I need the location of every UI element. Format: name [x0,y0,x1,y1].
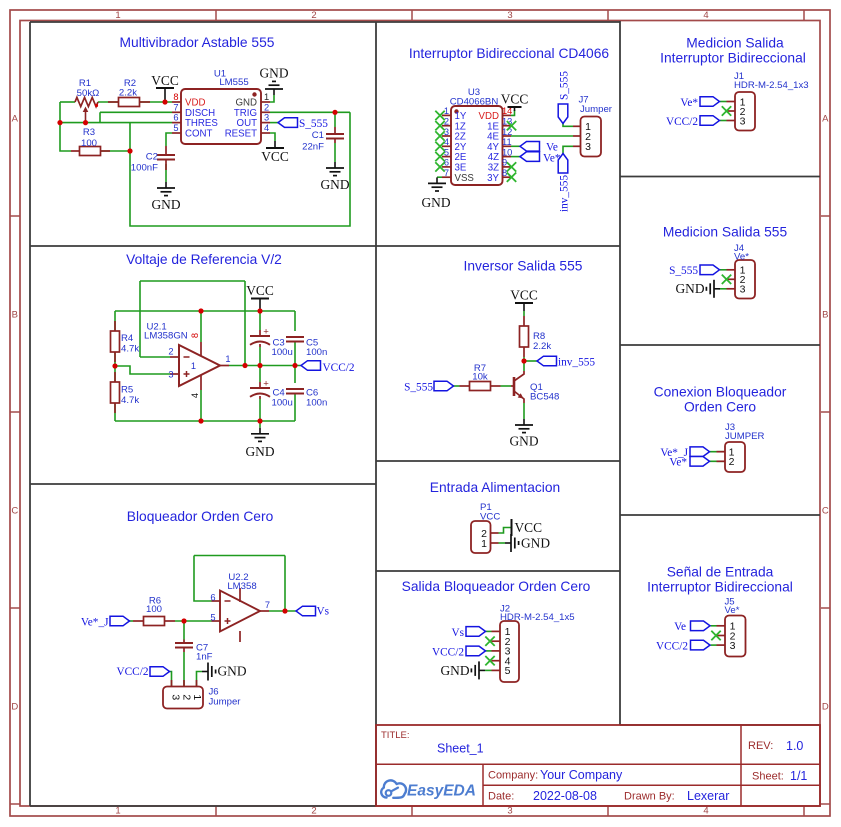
junction node R1-R2-VCC [162,99,167,104]
svg-text:3: 3 [740,115,746,127]
svg-text:1: 1 [115,806,120,817]
ground B2 [515,419,533,433]
svg-text:B: B [12,309,18,320]
svg-text:100: 100 [81,138,97,149]
svg-text:5: 5 [210,612,215,622]
svg-text:GND: GND [245,444,274,459]
svg-text:GND: GND [259,66,288,81]
transistor Q1 BC548 [513,377,516,396]
op-amp U2.2 LM358 [220,591,260,632]
svg-text:1: 1 [481,538,487,550]
wire S_555 to J4 pin1 [720,269,727,271]
net flag Ve* J3 [690,457,710,467]
wire pin4 to VCC [270,133,275,141]
svg-text:4: 4 [190,393,200,398]
capacitor C2 100nF [165,146,167,155]
ground section A2 [251,428,269,442]
svg-text:GND: GND [421,195,450,210]
svg-text:C1: C1 [312,130,324,141]
net flag Ve* [520,152,540,162]
no-connect X J5 pin2 [711,631,720,640]
connector J1 HDR-M-2.54_1x3 [735,92,755,131]
svg-text:Company:: Company: [488,770,538,782]
net flag VCC/2 to jumper [150,667,170,677]
svg-text:100u: 100u [272,397,293,408]
junction node R1 wiper [83,120,88,125]
junction node TRIG-C1 [332,110,337,115]
ground below C1 [326,162,344,176]
svg-text:100: 100 [146,604,162,615]
wire pin2 input [140,356,170,358]
svg-text:D: D [822,701,829,712]
resistor R3 100 [71,150,80,152]
wire Ve to J5 pin1 [711,625,717,627]
wire P1 pin2 to VCC [499,528,511,534]
no-connect X J2 pin2 [485,637,494,646]
EasyEDA logo [381,780,476,799]
capacitor C1 22nF [334,127,336,134]
wire R8 to node [523,357,525,361]
svg-text:VCC: VCC [515,520,543,535]
svg-text:1nF: 1nF [196,652,213,663]
svg-text:1: 1 [191,694,203,700]
wire left vertical branch [60,102,71,151]
resistor R7 10k [460,385,470,387]
svg-text:C: C [822,505,829,516]
no-connect X J4 pin2 [722,275,731,284]
svg-text:CONT: CONT [185,129,213,140]
svg-text:Date:: Date: [488,791,514,803]
svg-text:S_555: S_555 [299,118,328,130]
capacitor C6 100n [286,388,304,390]
svg-text:Señal de Entrada: Señal de Entrada [667,565,774,580]
wire THRES rail [60,122,172,124]
svg-text:1: 1 [191,361,196,371]
svg-text:RESET: RESET [225,129,257,140]
junction node left rail [57,120,62,125]
wire node to bottom loop [130,112,350,226]
wire output A3 [269,610,296,612]
svg-text:3: 3 [264,113,269,123]
svg-text:A: A [12,113,19,124]
wire feedback loop top [140,280,245,282]
svg-text:Ve*: Ve* [680,97,698,109]
svg-text:2.2k: 2.2k [119,88,137,99]
wire Ve*_J to J3 pin1 [710,451,727,453]
svg-text:1: 1 [225,354,230,364]
svg-text:2022-08-08: 2022-08-08 [533,789,597,803]
svg-text:VCC: VCC [501,92,529,107]
svg-text:B: B [822,309,828,320]
svg-text:Vs: Vs [317,606,330,618]
svg-text:1/1: 1/1 [790,769,807,783]
svg-text:VCC/2: VCC/2 [666,116,698,128]
wire C2 to ground [165,164,167,182]
svg-text:6: 6 [210,592,215,602]
wire P1 pin1 to GND [499,542,506,544]
svg-text:VCC/2: VCC/2 [323,362,355,374]
wire VCC/2 flag to J2 pin3 [485,650,492,652]
title block border [376,725,820,806]
svg-text:3: 3 [730,640,736,652]
svg-text:7: 7 [173,102,178,112]
wire pin1 to GND [270,95,274,102]
svg-text:VCC: VCC [480,512,500,523]
wire left branch R4 R5 [114,311,116,421]
svg-text:Sheet_1: Sheet_1 [437,742,484,756]
svg-text:VCC/2: VCC/2 [656,641,688,653]
svg-text:GND: GND [320,177,349,192]
svg-text:12: 12 [502,127,512,137]
svg-text:1: 1 [264,92,269,102]
svg-text:10: 10 [502,147,512,157]
junction node R3-C2 [127,148,132,153]
capacitor C3 100u [259,330,261,336]
wire pin10 to Ve* flag [511,156,520,158]
connector J6 Jumper [163,687,203,709]
svg-text:50kΩ: 50kΩ [77,88,100,99]
svg-text:1.0: 1.0 [786,739,803,753]
ground sideways J4 [706,280,720,298]
wire DISCH elbow [100,111,172,113]
svg-text:2: 2 [181,694,193,700]
wire emitter to gnd [523,403,525,419]
svg-text:+: + [263,327,269,338]
svg-text:Orden Cero: Orden Cero [684,400,756,415]
svg-text:R3: R3 [83,127,95,138]
svg-text:Your Company: Your Company [540,768,623,782]
junction dots section A2 [198,308,203,313]
net flag S_555 vertical [558,104,568,124]
svg-text:Lexerar: Lexerar [687,789,729,803]
svg-text:Salida Bloqueador Orden Cero: Salida Bloqueador Orden Cero [402,579,591,594]
svg-text:GND: GND [521,535,550,550]
svg-text:LM358: LM358 [227,581,256,592]
svg-text:LM358GN: LM358GN [144,331,188,342]
svg-text:C: C [11,505,18,516]
wire R7 to base [501,385,512,387]
svg-text:Interruptor Bidireccional: Interruptor Bidireccional [647,580,793,595]
svg-text:A: A [822,113,829,124]
resistor R6 100 [133,620,144,622]
wire pin3 input [115,366,170,374]
wire input Ve*_J [130,620,134,622]
svg-text:GND: GND [151,197,180,212]
svg-text:R4: R4 [121,333,134,344]
frame tick marks [215,10,217,21]
svg-text:4: 4 [703,10,708,21]
wire VSS to ground [437,176,442,178]
op-amp U2.1 LM358GN [179,345,220,386]
svg-text:5: 5 [173,123,178,133]
svg-text:3: 3 [585,141,591,153]
svg-text:Voltaje de Referencia V/2: Voltaje de Referencia V/2 [126,252,282,267]
wire J7 pin3 to inv_555 flag [563,146,573,153]
svg-text:Vs: Vs [451,627,464,639]
net flag S_555 J4 [700,265,720,275]
svg-text:Ve*: Ve* [725,605,740,616]
svg-text:100u: 100u [272,347,293,358]
connector J2 HDR-M-2.54_1x5 [500,621,519,682]
wire C3 C4 column [259,311,261,330]
net flag VCC/2 J1 [700,116,720,126]
capacitor C4 100u [259,382,261,388]
svg-text:inv_555: inv_555 [559,175,571,212]
svg-text:2: 2 [311,10,316,21]
svg-text:Medicion Salida: Medicion Salida [686,36,784,51]
svg-text:2: 2 [729,456,735,468]
net flag Ve* J1 [700,97,720,107]
svg-text:Ve*: Ve* [543,153,561,165]
svg-text:4: 4 [264,123,269,133]
svg-text:Sheet:: Sheet: [752,771,784,783]
no-connect X pin8 [507,173,516,182]
net flag Vs input J2 [466,627,486,637]
capacitor C5 100n [286,336,304,338]
svg-text:100n: 100n [306,397,327,408]
svg-text:Ve*: Ve* [669,457,687,469]
svg-text:6: 6 [173,113,178,123]
svg-text:VSS: VSS [455,173,475,184]
svg-text:GND: GND [440,663,469,678]
ground below C2 [157,182,175,196]
wire GND to J2 pin5 [485,669,492,671]
no-connect X J2 pin4 [485,656,494,665]
svg-text:2: 2 [264,102,269,112]
net flag Ve*_J J3 [690,447,710,457]
svg-text:LM555: LM555 [219,77,248,88]
svg-text:Medicion Salida 555: Medicion Salida 555 [663,225,788,240]
net flag Vs output [296,606,316,616]
svg-text:VCC: VCC [510,288,538,303]
svg-text:HDR-M-2.54_1x5: HDR-M-2.54_1x5 [500,612,575,623]
svg-text:Multivibrador Astable 555: Multivibrador Astable 555 [120,35,275,50]
wire C5 C6 column [294,311,296,331]
svg-text:D: D [11,701,18,712]
svg-text:R5: R5 [121,385,133,396]
wire pin12 to J7 pin2 [511,135,573,137]
net flag S_555 input B2 [434,381,454,391]
svg-text:8: 8 [173,92,178,102]
wire C7 branch [183,621,185,640]
wire VCC/2 to J1 pin3 [720,120,727,122]
capacitor C7 1nF [183,640,185,644]
svg-text:VCC/2: VCC/2 [432,646,464,658]
svg-text:S_555: S_555 [404,382,433,394]
svg-text:11: 11 [502,137,512,147]
wire VCC/2 to J6 [170,672,172,687]
resistor R1 50k potentiometer [75,97,98,106]
power flag VCC above U1 [164,88,166,102]
svg-text:VCC: VCC [261,149,289,164]
ground sideways J2 [471,661,485,679]
svg-text:4.7k: 4.7k [121,395,139,406]
wire VCC rail to R1/R2 row [60,101,75,103]
wire OUT to flag [270,122,278,124]
net flag VCC/2 J2 [466,646,486,656]
wire C1 top [334,112,336,127]
svg-text:Interruptor Bidireccional: Interruptor Bidireccional [660,51,806,66]
svg-text:C2: C2 [146,152,158,163]
svg-text:22nF: 22nF [302,142,324,153]
svg-text:Bloqueador Orden Cero: Bloqueador Orden Cero [127,509,274,524]
power flag VCC section A2 [259,299,261,312]
no-connect X pin13 [507,121,516,130]
wire VCC/2 to J5 pin3 [711,644,717,646]
svg-text:2: 2 [311,806,316,817]
ground U3 [428,177,446,191]
wire pin11 to Ve flag [511,145,520,147]
svg-text:HDR-M-2.54_1x3: HDR-M-2.54_1x3 [734,80,809,91]
wire node to flag inv_555 [524,360,537,362]
wire feedback loop A3 [194,555,285,557]
power flag VCC below pin 4 [274,141,276,148]
resistor R5 4.7k [114,372,116,382]
svg-text:10k: 10k [472,372,488,383]
svg-text:EasyEDA: EasyEDA [407,783,476,800]
wire upper rail [115,310,295,312]
svg-text:Conexion Bloqueador: Conexion Bloqueador [654,385,787,400]
no-connect X marks U3 left [435,111,444,120]
net flag S_555 output [278,118,298,128]
junction node collector [521,358,526,363]
svg-text:3: 3 [507,10,512,21]
junction node output A3 [282,608,287,613]
svg-text:7: 7 [444,168,449,178]
svg-text:+: + [263,379,269,390]
ground above pin 1 [265,81,283,95]
svg-text:1: 1 [115,10,120,21]
svg-text:GND: GND [675,281,704,296]
svg-text:TITLE:: TITLE: [381,730,410,741]
svg-text:Jumper: Jumper [209,697,242,708]
no-connect X pin9 [507,162,516,171]
svg-text:100nF: 100nF [131,163,158,174]
wire op-amp power top [200,311,202,342]
wire CONT to C2 [166,133,172,146]
resistor R8 2.2k [523,316,525,326]
net flag inv_555 vertical [558,154,568,174]
U3 pin stubs [442,114,451,116]
wire C1 to ground [334,143,336,162]
svg-text:4.7k: 4.7k [121,344,139,355]
connector J7 Jumper [581,117,602,157]
net flag VCC/2 J5 [691,640,711,650]
connector J5 header [725,616,746,657]
svg-text:Entrada Alimentacion: Entrada Alimentacion [430,480,560,495]
resistor R4 4.7k [114,321,116,331]
net flag Ve [520,142,540,152]
wire pin14 to VCC [511,110,515,115]
svg-text:2.2k: 2.2k [533,341,551,352]
svg-text:VCC: VCC [246,283,274,298]
svg-text:Inversor Salida 555: Inversor Salida 555 [464,259,583,274]
svg-text:7: 7 [265,600,270,610]
ground sideways P1 [505,534,519,552]
op-amp timer U1 LM555 [181,89,261,144]
svg-text:Ve: Ve [674,621,686,633]
svg-text:VCC/2: VCC/2 [116,666,148,678]
svg-text:5: 5 [505,665,511,677]
svg-text:3: 3 [169,694,181,700]
connector P1 VCC [471,521,491,553]
svg-text:GND: GND [218,663,247,678]
svg-text:8: 8 [190,333,200,338]
ground sideways J6 [202,663,216,681]
svg-text:4: 4 [703,806,708,817]
svg-text:2: 2 [168,347,173,357]
svg-text:Ve*: Ve* [734,252,749,263]
wire GND to J4 pin3 [719,288,727,290]
net flag Ve*_J input [110,616,130,626]
wire TRIG to C1 loop [270,111,350,113]
power flag VCC B2 [523,303,525,311]
svg-text:Ve*_J: Ve*_J [81,617,109,629]
wire GND to J6 [197,672,203,687]
section divider lines [30,21,620,23]
svg-text:inv_555: inv_555 [558,357,595,369]
net flag Ve J5 [691,621,711,631]
svg-text:REV:: REV: [748,740,773,752]
wire collector [523,361,525,371]
connector J4 header [735,260,755,299]
svg-text:Jumper: Jumper [580,104,613,115]
svg-text:3: 3 [740,284,746,296]
power flag VCC U3 [514,107,516,111]
wire Ve* to J1 pin1 [720,101,727,103]
junction node pin5-C7 [181,618,186,623]
wire S_555 flag to J7 pin1 [563,124,573,127]
wire bottom rail [115,420,295,422]
wire op-amp power bottom [200,390,202,421]
net flag VCC/2 output [301,361,321,371]
svg-text:3: 3 [507,806,512,817]
analog switch U3 CD4066BN [451,106,503,185]
wire R3 to C2 node [101,150,130,152]
svg-text:VCC: VCC [151,73,179,88]
wire Vs flag to J2 pin1 [485,630,492,632]
wire gnd stem [259,421,261,428]
connector J3 JUMPER [725,442,745,472]
svg-text:100n: 100n [306,347,327,358]
svg-text:S_555: S_555 [669,265,698,277]
wire R6 to pin5 [175,620,212,622]
svg-text:S_555: S_555 [559,71,571,100]
wire VCC to R8 [523,311,525,316]
svg-text:3: 3 [168,370,173,380]
svg-text:BC548: BC548 [530,392,559,403]
svg-text:GND: GND [509,434,538,449]
svg-text:CD4066BN: CD4066BN [450,97,499,108]
wire Ve* to J3 pin2 [710,460,727,462]
resistor R2 2.2k [108,101,118,103]
svg-text:JUMPER: JUMPER [725,431,765,442]
no-connect X J1 pin2 [722,106,731,115]
wire S_555 to R7 [454,385,460,387]
svg-text:3Y: 3Y [487,173,499,184]
svg-text:Drawn By:: Drawn By: [624,791,675,803]
power flag VCC sideways [511,519,513,536]
svg-text:Interruptor Bidireccional CD40: Interruptor Bidireccional CD4066 [409,46,609,61]
net flag inv_555 output [537,356,557,366]
wire output [229,365,301,367]
